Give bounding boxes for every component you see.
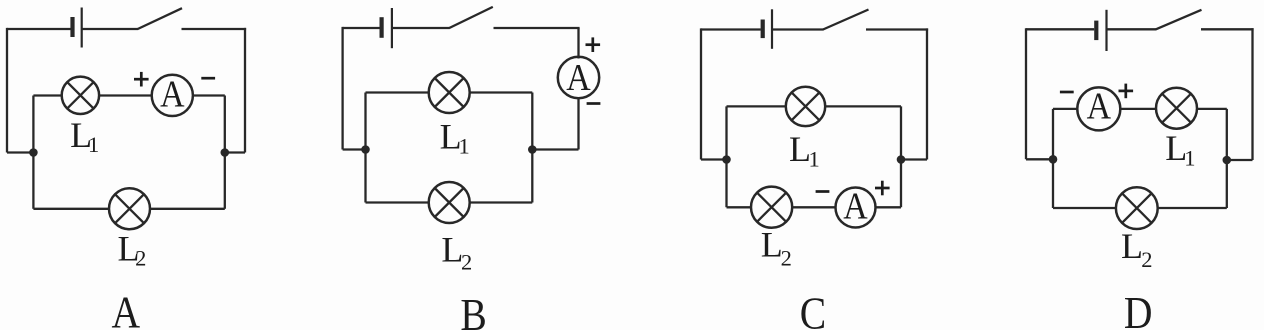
wire ammeter to right C	[875, 206, 901, 208]
svg-text:A: A	[160, 72, 184, 114]
label L2 (D)	[1121, 226, 1153, 272]
svg-text:2: 2	[461, 250, 472, 275]
polarity + ammeter D right	[1119, 84, 1134, 99]
polarity + ammeter B top	[586, 37, 601, 52]
switch S-A	[138, 8, 182, 29]
wire inner left vertical D	[1052, 109, 1054, 208]
wire to lamp L2 B	[366, 201, 429, 203]
wire ammeter to right vertical A	[193, 94, 225, 96]
wire battery to switch D	[1107, 28, 1157, 30]
wire lamp L1 to right D	[1197, 108, 1227, 110]
label L1 (A)	[70, 115, 99, 157]
wire switch to right corner D	[1201, 28, 1254, 30]
junction node left B	[361, 145, 370, 154]
wire battery left lead A	[7, 28, 71, 30]
junction node left C	[722, 155, 731, 164]
ammeter A (circuit A)	[152, 72, 193, 116]
svg-text:2: 2	[781, 245, 792, 270]
svg-text:D: D	[1124, 289, 1153, 330]
lamp L1 (D)	[1156, 88, 1197, 129]
battery BT-B	[382, 8, 392, 48]
ammeter A (circuit D)	[1077, 84, 1120, 130]
wire lamp L2 to ammeter C	[792, 206, 836, 208]
polarity - ammeter B bottom	[587, 102, 601, 105]
wire outer right vertical D	[1251, 28, 1253, 160]
wire switch to right corner B	[494, 27, 580, 29]
wire top to ammeter B	[577, 28, 579, 59]
wire to right node B	[532, 148, 578, 150]
wire inner right vertical B	[531, 93, 533, 203]
label L2 (A)	[118, 229, 147, 271]
svg-text:L: L	[1121, 226, 1143, 266]
switch S-D	[1156, 10, 1202, 30]
wire inner right vertical D	[1226, 109, 1228, 208]
svg-text:A: A	[112, 288, 141, 330]
switch S-B	[449, 7, 493, 28]
svg-text:L: L	[761, 225, 783, 265]
battery BT-D	[1096, 10, 1106, 51]
svg-text:A: A	[843, 185, 867, 227]
wire battery to switch C	[772, 28, 824, 30]
wire battery to switch A	[82, 28, 139, 30]
junction node right C	[897, 155, 906, 164]
wire switch to right corner A	[182, 28, 247, 30]
lamp L2 (D)	[1116, 187, 1158, 229]
wire battery to switch B	[392, 27, 450, 29]
label L1 (D)	[1165, 128, 1195, 171]
wire to left node C	[701, 158, 727, 160]
wire outer left vertical A	[6, 28, 8, 153]
label L1 (C)	[789, 129, 820, 172]
polarity + ammeter A left	[134, 72, 149, 87]
polarity + ammeter C right	[875, 181, 890, 196]
battery BT-C	[763, 9, 772, 49]
wire inner left vertical B	[364, 93, 366, 203]
lamp L2 (B)	[429, 182, 470, 223]
svg-text:B: B	[460, 291, 486, 330]
wire to right node A	[225, 151, 245, 153]
junction node left A	[29, 148, 38, 157]
wire lamp L2 to right D	[1158, 207, 1227, 209]
switch S-C	[823, 10, 869, 30]
wire to left node D	[1026, 158, 1053, 160]
wire battery left lead B	[343, 27, 380, 29]
wire lamp L1 to right C	[825, 105, 901, 107]
wire to lamp L1 A	[33, 94, 62, 96]
wire to lamp L1 C	[727, 105, 786, 107]
wire outer right vertical C	[926, 28, 928, 159]
svg-text:1: 1	[88, 132, 99, 157]
wire switch to right corner C	[866, 28, 928, 30]
wire to right node C	[901, 158, 927, 160]
svg-text:C: C	[800, 289, 826, 330]
lamp L1 (A)	[62, 77, 99, 114]
wire to lamp L1 B	[366, 91, 429, 93]
junction node left D	[1049, 155, 1058, 164]
label L1 (B)	[440, 117, 470, 159]
wire inner left vertical C	[725, 106, 727, 207]
svg-text:1: 1	[459, 133, 470, 158]
wire L2 branch right vertical A	[224, 153, 226, 209]
wire battery left lead C	[701, 28, 761, 30]
junction node right D	[1223, 156, 1232, 165]
wire to left node A	[7, 151, 33, 153]
lamp L1 (B)	[429, 72, 470, 113]
junction node right A	[221, 148, 230, 157]
wire to left node B	[343, 148, 366, 150]
wire L1 branch right vertical A	[224, 96, 226, 153]
wire outer right vertical A	[244, 28, 246, 153]
svg-text:A: A	[1087, 84, 1111, 126]
wire to lamp L2 D	[1053, 207, 1116, 209]
wire L1 to ammeter A	[99, 94, 152, 96]
lamp L2 (A)	[109, 188, 150, 229]
polarity - ammeter D left	[1060, 91, 1074, 94]
polarity - ammeter A right	[201, 77, 215, 80]
ammeter A (circuit C)	[836, 185, 876, 228]
svg-text:2: 2	[135, 246, 146, 271]
wire outer left vertical C	[700, 28, 702, 159]
wire ammeter to lamp L1 D	[1120, 108, 1156, 110]
wire to lamp L2 A	[33, 208, 109, 210]
svg-text:1: 1	[809, 147, 820, 172]
ammeter A (circuit B)	[558, 56, 599, 98]
polarity - ammeter C left	[816, 190, 830, 193]
wire inner right vertical C	[900, 106, 902, 207]
lamp L1 (C)	[786, 87, 825, 126]
junction node right B	[528, 145, 537, 154]
wire L1 branch left vertical A	[32, 96, 34, 153]
svg-text:2: 2	[1141, 247, 1152, 272]
wire to lamp L2 C	[727, 206, 752, 208]
wire to ammeter D	[1053, 108, 1077, 110]
wire outer left vertical D	[1025, 28, 1027, 159]
wire L2 branch left vertical A	[32, 153, 34, 209]
label L2 (C)	[761, 225, 792, 271]
wire lamp L1 to right B	[470, 91, 533, 93]
wire outer left vertical B	[341, 27, 343, 150]
wire battery left lead D	[1026, 28, 1094, 30]
svg-text:A: A	[566, 56, 590, 98]
battery BT-A	[73, 8, 82, 48]
label L2 (B)	[441, 229, 472, 274]
wire lamp L2 to right A	[150, 208, 225, 210]
wire ammeter down B	[577, 98, 579, 149]
svg-text:1: 1	[1184, 146, 1195, 171]
lamp L2 (C)	[751, 187, 792, 228]
wire to right node D	[1227, 159, 1253, 161]
wire lamp L2 to right B	[470, 201, 533, 203]
